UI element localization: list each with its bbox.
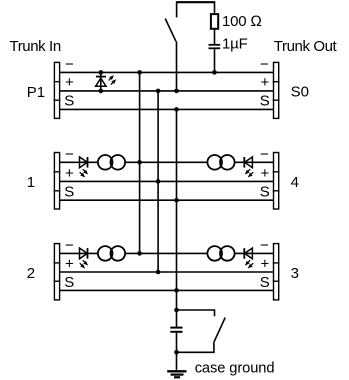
wire: phantom feed top rail (177, 1, 215, 3)
pin labels: connector 1 −,+,S (64, 146, 74, 201)
pin labels: connector 3 −,+,S (260, 237, 270, 291)
svg-text:−: − (260, 237, 269, 254)
svg-text:S: S (64, 274, 74, 291)
svg-text:−: − (260, 146, 269, 163)
svg-text:1: 1 (27, 174, 35, 191)
svg-text:1µF: 1µF (222, 36, 248, 53)
junction: minus bus to row1 minus (137, 160, 142, 165)
svg-text:S: S (260, 274, 270, 291)
svg-text:case ground: case ground (195, 361, 275, 377)
switch S2 (case ground link, open) (214, 318, 225, 343)
wire: branch to switch S2 (177, 310, 215, 316)
LED D3 (row1 right) (243, 157, 254, 179)
wire: S2 return to ground stem (177, 342, 214, 352)
junction: shield bus to S2 branch (174, 308, 179, 313)
svg-text:+: + (65, 165, 74, 182)
connector 2 (left bar) (54, 244, 61, 300)
svg-text:+: + (65, 74, 74, 91)
wire: P1/S0 plus line (60, 90, 274, 92)
wire: P1/S0 shield line (60, 108, 274, 110)
wire: row2 plus line (60, 271, 274, 273)
transformer T3 (row2 left) (98, 246, 125, 261)
junction: shield bus to row1 shield (174, 198, 179, 203)
connector 4 (right bar) (273, 153, 280, 210)
LED D1 (P1 row, vertical) (96, 72, 118, 91)
wire: shield bus down to case ground (176, 290, 178, 327)
capacitor C2 (case ground) (170, 328, 182, 370)
junction: minus bus to row2 minus (137, 251, 142, 256)
svg-text:S: S (260, 184, 270, 201)
svg-text:Trunk Out: Trunk Out (274, 38, 338, 55)
junction: D1 cathode to minus line (99, 70, 104, 75)
svg-text:−: − (65, 146, 74, 163)
connector 3 (right bar) (273, 244, 280, 300)
wire: row1 shield line (60, 199, 274, 201)
svg-text:2: 2 (27, 265, 35, 282)
wire: switch S1 to P1 plus line (176, 41, 178, 91)
wire: row1 plus line (60, 180, 274, 182)
resistor R1 (211, 1, 218, 44)
LED D2 (row1 left) (78, 157, 89, 179)
connector S0 (right bar) (273, 62, 280, 118)
svg-text:S0: S0 (291, 84, 309, 101)
wire: minus bus (vertical) (139, 72, 141, 253)
svg-text:−: − (65, 237, 74, 254)
wire: row1 minus line (60, 161, 274, 163)
wire: plus bus (vertical) (157, 91, 159, 272)
svg-text:P1: P1 (27, 84, 45, 101)
svg-text:+: + (261, 256, 270, 273)
junction: feed to P1 plus line (174, 89, 179, 94)
junction: plus bus to row1 plus (156, 179, 161, 184)
capacitor C1 (209, 45, 221, 73)
junction: shield bus to row2 shield (174, 288, 179, 293)
junction: bus minus to P1 minus line (137, 70, 142, 75)
svg-text:−: − (65, 56, 74, 73)
transformer T2 (row1 right) (207, 155, 234, 170)
switch S1 (phantom feed, open) (165, 1, 176, 41)
junction: plus bus to row2 plus (156, 270, 161, 275)
pin labels: S0 −,+,S (260, 56, 270, 109)
junction: S2 return to ground stem (174, 350, 179, 355)
pin labels: connector 2 −,+,S (64, 237, 74, 291)
transformer T1 (row1 left) (98, 155, 125, 170)
svg-text:S: S (260, 93, 270, 110)
junction: D1 anode to plus line (99, 89, 104, 94)
svg-text:Trunk In: Trunk In (10, 38, 61, 55)
ground: case ground symbol (167, 371, 186, 377)
svg-text:S: S (64, 184, 74, 201)
connector P1 (left bar) (54, 62, 61, 118)
pin labels: connector 4 −,+,S (260, 146, 270, 201)
svg-text:100 Ω: 100 Ω (222, 13, 262, 30)
svg-text:3: 3 (291, 265, 299, 282)
transformer T4 (row2 right) (207, 246, 234, 261)
junction: bus shield to P1 shield line (174, 107, 179, 112)
junction: C1 to P1 minus line (212, 70, 217, 75)
wire: row2 shield line (60, 289, 274, 291)
wire: P1/S0 minus line (60, 71, 274, 73)
LED D5 (row2 right) (243, 248, 254, 270)
LED D4 (row2 left) (78, 248, 89, 270)
svg-text:−: − (260, 56, 269, 73)
junction: bus plus to P1 plus line (156, 89, 161, 94)
svg-text:+: + (65, 256, 74, 273)
connector 1 (left bar) (54, 153, 61, 210)
wire: shield bus (vertical) (176, 109, 178, 290)
pin labels: P1 −,+,S (64, 56, 74, 109)
svg-text:+: + (261, 74, 270, 91)
svg-text:4: 4 (291, 174, 299, 191)
svg-text:+: + (261, 165, 270, 182)
svg-text:S: S (64, 93, 74, 110)
wire: row2 minus line (60, 252, 274, 254)
